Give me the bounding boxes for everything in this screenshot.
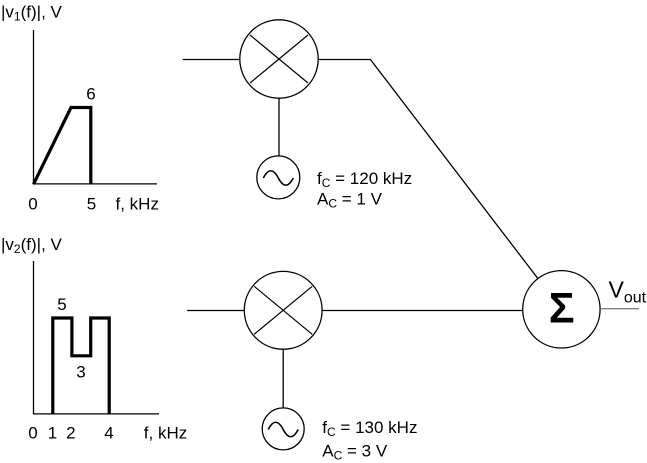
svg-text:4: 4 xyxy=(104,423,113,442)
wire from graph2 to mixer M2 xyxy=(187,310,244,312)
output wire xyxy=(600,308,639,310)
wire diagonal from M1 to summer xyxy=(370,60,561,310)
svg-text:f, kHz: f, kHz xyxy=(116,195,159,214)
svg-text:0: 0 xyxy=(28,423,37,442)
wire stem M2 to oscillator O2 xyxy=(282,349,284,408)
summer U3 xyxy=(523,271,600,348)
graph2 spectrum trace (notched pulse) xyxy=(53,318,109,414)
wire from graph1 to mixer M1 xyxy=(183,59,240,61)
svg-text:|v2(f)|, V: |v2(f)|, V xyxy=(1,235,63,256)
svg-text:|v1(f)|, V: |v1(f)|, V xyxy=(1,3,63,24)
svg-text:6: 6 xyxy=(86,85,95,104)
svg-text:5: 5 xyxy=(57,295,66,314)
svg-text:3: 3 xyxy=(76,362,85,381)
graph1 spectrum trace (trapezoid) xyxy=(34,108,91,185)
graph1 x-axis xyxy=(33,183,157,185)
mixer M2 xyxy=(244,271,322,349)
wire from mixer M1 output xyxy=(318,59,370,61)
svg-text:fC = 120 kHz: fC = 120 kHz xyxy=(317,169,412,190)
svg-text:0: 0 xyxy=(28,195,37,214)
oscillator O2 xyxy=(262,408,304,450)
svg-text:AC = 1 V: AC = 1 V xyxy=(317,190,383,211)
graph1 y-axis xyxy=(33,30,35,184)
svg-text:fC = 130 kHz: fC = 130 kHz xyxy=(322,418,417,439)
svg-text:AC = 3 V: AC = 3 V xyxy=(322,441,388,462)
svg-text:1: 1 xyxy=(48,423,57,442)
svg-text:5: 5 xyxy=(87,195,96,214)
svg-text:2: 2 xyxy=(66,423,75,442)
wire stem M1 to oscillator O1 xyxy=(278,98,280,158)
svg-text:f, kHz: f, kHz xyxy=(144,423,187,442)
graph2 x-axis xyxy=(33,413,159,415)
wire from mixer M2 to summer xyxy=(322,310,523,312)
mixer M1 xyxy=(240,20,318,98)
graph2 y-axis xyxy=(33,261,35,414)
svg-text:Σ: Σ xyxy=(549,285,575,333)
oscillator O1 xyxy=(257,156,300,199)
